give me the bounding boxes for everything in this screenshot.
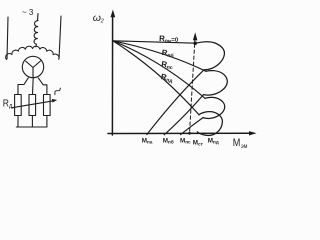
wire phase middle (37, 14, 40, 21)
wire box2 bottom (31, 116, 33, 128)
label Mem (x axis) (233, 137, 248, 150)
stator winding garland (6, 46, 59, 59)
resistor box 3 (44, 95, 51, 116)
axis label Mpa (142, 137, 153, 144)
svg-text:д: д (9, 104, 13, 110)
curve label Rpb (161, 48, 174, 59)
motor M (rotor circle) (22, 56, 43, 77)
resistor box 1 (15, 95, 22, 116)
y axis (111, 16, 113, 135)
axis label Mst (193, 140, 204, 147)
bottom bus wire (16, 126, 47, 128)
dashed load-torque line Mst (190, 38, 196, 133)
descending branch 3 (181, 118, 203, 135)
svg-text:Rпб: Rпб (161, 48, 174, 59)
wye symbol inside rotor (26, 61, 41, 78)
nose curve 4 (197, 112, 222, 136)
wire box3 bottom (46, 116, 48, 128)
x axis (108, 132, 250, 134)
descending branch 1 (147, 70, 204, 135)
rotor lead middle (32, 78, 35, 95)
characteristic line 3 (Rpc) (113, 41, 205, 99)
svg-text:Rпв=0: Rпв=0 (159, 34, 179, 45)
svg-text:Mпб: Mпб (163, 137, 174, 144)
operating point A dot (193, 41, 197, 45)
label omega2 (y axis) (93, 12, 104, 25)
resistor box 2 (29, 95, 36, 116)
curve label Rpd (160, 72, 175, 84)
svg-text:Rпс: Rпс (161, 60, 174, 72)
characteristic line 4 (Rpd) (113, 41, 199, 115)
svg-text:Rпд: Rпд (160, 72, 175, 84)
svg-text:Mпа: Mпа (142, 137, 153, 144)
characteristic line 1 (Rpv=0) (113, 41, 196, 43)
curve label Rpv=0 (159, 34, 179, 45)
wire phase right (59, 16, 61, 59)
label r' (rotor resistance mark) (55, 88, 61, 95)
junction dot at axis (188, 132, 191, 135)
characteristic line 2 (Rpb) (113, 41, 206, 72)
nose curve 3 (203, 97, 225, 118)
nose curve 2 (204, 71, 228, 96)
svg-text:~ 3: ~ 3 (22, 8, 34, 17)
svg-text:Mпд: Mпд (208, 137, 219, 144)
supply label ~3 (22, 8, 34, 17)
rotor lead right (38, 78, 47, 95)
descending branch 2 (164, 95, 203, 135)
variable-resistance arrow through boxes (12, 101, 54, 108)
curve label Rpc (161, 60, 174, 72)
svg-text:ω: ω (93, 12, 101, 24)
label Rd (3, 98, 13, 109)
arrowhead up on dashed line (193, 32, 198, 40)
rotor lead left (18, 78, 28, 95)
svg-text:Mпс: Mпс (180, 137, 191, 144)
nose curve 1 (196, 42, 224, 70)
svg-text:2: 2 (100, 18, 104, 24)
axis label Mpc (180, 137, 191, 144)
axis label Mpb (163, 137, 174, 144)
wire box1 bottom (17, 116, 19, 128)
axis label Mpd (208, 137, 219, 144)
svg-text:эм: эм (241, 144, 247, 150)
wire phase left (7, 17, 8, 59)
svg-text:M: M (233, 137, 241, 149)
svg-text:Мст: Мст (193, 140, 204, 147)
inductor middle (stator phase coil) (34, 21, 38, 47)
